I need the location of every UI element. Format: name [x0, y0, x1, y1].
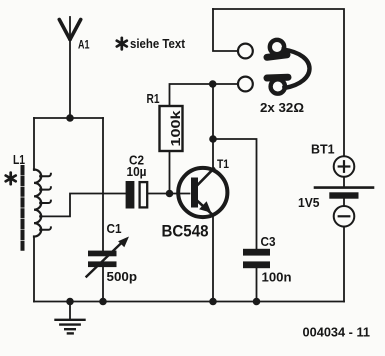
wire: tank left vertical: [33, 118, 35, 170]
capacitor C1 (variable, 500p): [87, 237, 130, 277]
headphones icon: [267, 40, 310, 94]
node: rail/C1: [99, 298, 107, 306]
wire: C2 to base: [148, 193, 189, 195]
svg-text:2x 32Ω: 2x 32Ω: [260, 100, 304, 115]
svg-text:L1: L1: [13, 153, 25, 167]
svg-text:004034 - 11: 004034 - 11: [303, 324, 371, 339]
wire: R1 bottom: [169, 151, 171, 194]
wire: antenna lead down: [69, 40, 71, 118]
svg-text:siehe Text: siehe Text: [130, 36, 186, 51]
wire: top rail to battery: [213, 9, 344, 156]
svg-text:100k: 100k: [168, 110, 183, 147]
wire: C3 to rail: [256, 268, 258, 301]
node: collector/R1/phones: [209, 80, 217, 88]
transistor T1: [178, 168, 227, 217]
node: collector/C3 branch: [209, 135, 217, 143]
wire: ground rail: [34, 301, 344, 303]
core (dashed): [21, 167, 25, 250]
terminal: phone jack 1: [238, 44, 253, 59]
wire: phones terminal 1 feed: [213, 9, 238, 51]
antenna A1: [59, 17, 80, 40]
svg-text:C3: C3: [261, 234, 276, 249]
svg-text:10µ: 10µ: [127, 164, 147, 179]
wire: collector up: [212, 84, 214, 169]
svg-text:BC548: BC548: [162, 223, 209, 241]
svg-text:100n: 100n: [262, 269, 292, 284]
wire: phones terminal 2 feed: [213, 83, 238, 85]
asterisk (L1): [6, 173, 16, 185]
battery BT1: [315, 156, 373, 226]
capacitor C3 (100n): [243, 249, 270, 268]
terminal: phone jack 2: [238, 77, 253, 92]
wire: emitter to rail: [212, 216, 214, 302]
node: base/R1 junction: [166, 190, 174, 198]
ground: [56, 302, 85, 334]
svg-text:T1: T1: [217, 157, 229, 171]
wire: R1 top: [170, 84, 213, 106]
inductor L1: [23, 167, 51, 250]
wire: to C3: [213, 139, 257, 249]
svg-text:A1: A1: [78, 38, 90, 52]
asterisk (siehe Text): [117, 38, 127, 50]
svg-text:BT1: BT1: [311, 142, 335, 157]
wire: battery to rail: [343, 227, 345, 302]
node: antenna/tank junction: [66, 114, 74, 122]
wire: tank top rail: [34, 117, 103, 119]
node: rail/emitter: [209, 298, 217, 306]
svg-text:R1: R1: [147, 92, 160, 106]
svg-text:500p: 500p: [107, 269, 138, 284]
node: rail/C3: [253, 298, 261, 306]
capacitor C2 (10u): [126, 181, 148, 209]
wire: tank right vertical (C1 branch): [102, 118, 104, 251]
wire: coil tap to C2: [41, 194, 125, 217]
resistor R1 100k: [160, 106, 183, 151]
wire: C1 to rail: [102, 267, 104, 301]
wire: below L1 to rail: [33, 237, 35, 302]
svg-text:C1: C1: [107, 221, 122, 236]
svg-text:1V5: 1V5: [298, 195, 320, 210]
node: rail/ground: [66, 298, 74, 306]
